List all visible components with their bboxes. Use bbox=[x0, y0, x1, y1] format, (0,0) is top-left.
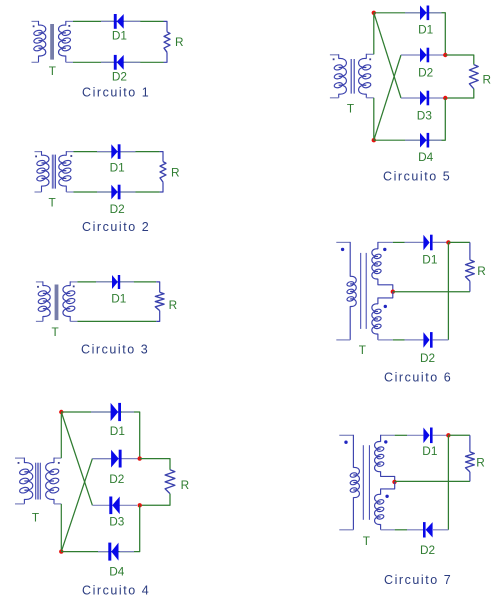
label T (circuit 1) bbox=[49, 64, 56, 78]
svg-text:D2: D2 bbox=[420, 351, 435, 365]
transformer T (circuit 1) secondary winding bbox=[59, 21, 73, 62]
svg-text:D1: D1 bbox=[110, 161, 125, 175]
wire c6 resistor bottom lead bbox=[469, 281, 471, 292]
label Circuito 5 bbox=[383, 170, 451, 184]
wire c4 D1 row bbox=[61, 411, 134, 413]
transformer T (circuit 4) secondary polarity dot bbox=[58, 462, 60, 464]
transformer T (circuit 6) core bbox=[361, 253, 367, 329]
transformer T (circuit 4) secondary winding bbox=[46, 458, 62, 504]
wire c4 D3 row bbox=[92, 504, 137, 506]
svg-text:T: T bbox=[49, 64, 56, 78]
transformer T (circuit 7) secondary top winding bbox=[375, 435, 395, 482]
svg-text:D4: D4 bbox=[109, 565, 125, 579]
wire c2 right bottom corner bbox=[160, 182, 163, 192]
transformer T (circuit 4) primary winding bbox=[15, 458, 33, 504]
wire c6 resistor bottom to center tap bbox=[393, 291, 470, 293]
wire c7 bottom (secondary bottom to D2) bbox=[395, 529, 423, 531]
node c4 top junction bbox=[59, 410, 63, 414]
label D2 (circuit 2) bbox=[110, 202, 125, 216]
label R (circuit 2) bbox=[171, 165, 180, 179]
resistor R (circuit 1) bbox=[164, 32, 170, 53]
label R (circuit 5) bbox=[483, 72, 492, 86]
label T (circuit 7) bbox=[363, 534, 370, 548]
node c6 D1 output junction bbox=[446, 240, 450, 244]
label D2 (circuit 4) bbox=[109, 472, 124, 486]
diode D1 (circuit 1) bbox=[114, 14, 124, 29]
transformer T (circuit 6) secondary bottom polarity dot bbox=[384, 305, 387, 308]
transformer T (circuit 5) primary winding bbox=[330, 54, 347, 98]
wire c6 vertical D1-node to D2 bbox=[447, 242, 449, 340]
label Circuito 6 bbox=[384, 370, 452, 384]
svg-text:R: R bbox=[175, 35, 184, 49]
diode D1 (circuit 2) bbox=[111, 144, 120, 159]
wire c5 D2 row bbox=[401, 54, 445, 56]
transformer T (circuit 7) secondary bottom winding bbox=[375, 482, 395, 530]
node c4 D2 output junction bbox=[138, 456, 142, 460]
svg-text:Circuito 3: Circuito 3 bbox=[81, 343, 149, 357]
wire c5 D2-node to resistor bbox=[445, 55, 474, 65]
resistor R (circuit 2) bbox=[160, 162, 166, 183]
wire c7 vertical D1-node to D2 bbox=[447, 435, 449, 530]
wire c7 D1 to node bbox=[432, 434, 448, 436]
transformer T (circuit 7) secondary top polarity dot bbox=[384, 440, 387, 443]
wire c5 D4 row bbox=[374, 139, 442, 141]
svg-text:D2: D2 bbox=[110, 202, 125, 216]
node c5 D3 output junction bbox=[443, 96, 447, 100]
svg-text:Circuito 1: Circuito 1 bbox=[82, 85, 150, 99]
label Circuito 3 bbox=[81, 343, 149, 357]
wire c6 D1 to node bbox=[432, 241, 448, 243]
node c7 D1 output junction bbox=[446, 433, 450, 437]
svg-text:D1: D1 bbox=[422, 252, 437, 266]
svg-text:D1: D1 bbox=[110, 424, 125, 438]
svg-text:R: R bbox=[477, 264, 486, 278]
wire c4 resistor to D3-node bbox=[140, 494, 170, 506]
wire c7 node to resistor top bbox=[448, 434, 470, 436]
node c7 center tap junction bbox=[392, 480, 396, 484]
transformer T (circuit 5) primary polarity dot bbox=[333, 58, 335, 60]
transformer T (circuit 6) secondary bottom winding bbox=[372, 292, 393, 340]
label R (circuit 6) bbox=[477, 264, 486, 278]
wire c5 diagonal top-node to D3 row bbox=[374, 13, 401, 98]
diode D1 (circuit 5) bbox=[420, 6, 429, 21]
transformer T (circuit 2) primary polarity dot bbox=[35, 156, 37, 158]
svg-text:D1: D1 bbox=[111, 292, 126, 306]
wire c5 right vertical D4-to-D3 bbox=[442, 98, 446, 140]
svg-text:T: T bbox=[52, 325, 59, 339]
svg-text:D1: D1 bbox=[422, 444, 437, 458]
label Circuito 4 bbox=[82, 583, 150, 597]
resistor R (circuit 7) bbox=[466, 452, 475, 472]
wire c5 resistor to D3-node bbox=[445, 89, 474, 98]
svg-text:D2: D2 bbox=[112, 70, 127, 84]
diode D2 (circuit 1) bbox=[114, 55, 124, 70]
wire c5 right vertical D1-to-D2 bbox=[442, 13, 446, 55]
transformer T (circuit 2) secondary winding bbox=[59, 151, 74, 192]
transformer T (circuit 6) primary winding bbox=[336, 242, 356, 340]
wire c7 top (secondary top to D1) bbox=[395, 434, 424, 436]
wire c1 bottom (resistor to D2 to secondary) bbox=[73, 61, 164, 63]
label D2 (circuit 6) bbox=[420, 351, 435, 365]
transformer T (circuit 5) core bbox=[351, 59, 354, 94]
transformer T (circuit 6) primary polarity dot bbox=[341, 248, 344, 251]
wire c1 right bottom corner bbox=[164, 52, 168, 62]
label D2 (circuit 5) bbox=[418, 66, 433, 80]
label D1 (circuit 5) bbox=[418, 23, 433, 37]
transformer T (circuit 1) secondary polarity dot bbox=[68, 25, 70, 27]
svg-text:Circuito 7: Circuito 7 bbox=[384, 573, 452, 587]
label D3 (circuit 5) bbox=[417, 109, 433, 123]
label D1 (circuit 4) bbox=[110, 424, 125, 438]
wire c1 top (secondary top to D1 and to resistor corner) bbox=[73, 20, 164, 22]
label D2 (circuit 7) bbox=[420, 543, 435, 557]
label T (circuit 3) bbox=[52, 325, 59, 339]
wire c6 resistor top lead bbox=[469, 242, 471, 260]
diode D4 (circuit 5) bbox=[420, 133, 429, 148]
wire c4 left vertical bottom (secondary bottom to node) bbox=[60, 504, 62, 552]
diode D2 (circuit 6) bbox=[423, 332, 432, 348]
svg-text:T: T bbox=[32, 511, 39, 525]
transformer T (circuit 3) primary winding bbox=[36, 281, 50, 321]
wire c7 resistor top lead bbox=[469, 435, 471, 452]
transformer T (circuit 3) secondary polarity dot bbox=[73, 286, 75, 288]
transformer T (circuit 4) primary polarity dot bbox=[18, 462, 20, 464]
transformer T (circuit 2) core bbox=[52, 155, 55, 189]
svg-text:R: R bbox=[181, 478, 190, 492]
svg-text:Circuito 4: Circuito 4 bbox=[82, 583, 150, 597]
transformer T (circuit 3) primary polarity dot bbox=[37, 286, 39, 288]
wire c7 resistor bottom lead bbox=[469, 472, 471, 482]
svg-text:D3: D3 bbox=[109, 515, 125, 529]
wire c3 right bottom corner bbox=[156, 311, 160, 322]
node c6 center tap junction bbox=[391, 290, 395, 294]
diode D2 (circuit 4) bbox=[111, 450, 122, 468]
svg-text:D4: D4 bbox=[418, 150, 434, 164]
wire c7 D2 to vertical bbox=[433, 529, 448, 531]
diode D1 (circuit 6) bbox=[423, 235, 432, 251]
wire c5 D1 row bbox=[374, 12, 442, 14]
label D4 (circuit 5) bbox=[418, 150, 434, 164]
node c5 bottom junction bbox=[372, 138, 376, 142]
label T (circuit 4) bbox=[32, 511, 39, 525]
wire c7 resistor bottom to center tap bbox=[395, 480, 470, 482]
svg-text:T: T bbox=[363, 534, 370, 548]
svg-text:D1: D1 bbox=[418, 23, 433, 37]
label Circuito 2 bbox=[82, 220, 150, 234]
label D1 (circuit 2) bbox=[110, 161, 125, 175]
diode D3 (circuit 4) bbox=[109, 497, 119, 515]
wire c3 right top corner bbox=[156, 282, 160, 292]
resistor R (circuit 6) bbox=[466, 260, 475, 281]
svg-text:D2: D2 bbox=[109, 472, 124, 486]
svg-text:Circuito 2: Circuito 2 bbox=[82, 220, 150, 234]
svg-text:D3: D3 bbox=[417, 109, 433, 123]
svg-text:R: R bbox=[476, 456, 485, 470]
transformer T (circuit 3) secondary winding bbox=[63, 281, 77, 321]
transformer T (circuit 6) secondary top winding bbox=[372, 242, 393, 292]
diode D3 (circuit 5) bbox=[420, 91, 429, 106]
wire c5 left vertical bottom bbox=[373, 98, 375, 140]
diode D4 (circuit 4) bbox=[108, 543, 118, 561]
wire c2 right top corner bbox=[160, 152, 163, 162]
wire c1 right top corner bbox=[164, 21, 168, 31]
label R (circuit 3) bbox=[169, 298, 178, 312]
label R (circuit 4) bbox=[181, 478, 190, 492]
transformer T (circuit 5) secondary polarity dot bbox=[369, 58, 371, 60]
transformer T (circuit 2) primary winding bbox=[35, 151, 50, 192]
node c5 D2 output junction bbox=[443, 53, 447, 57]
transformer T (circuit 3) core bbox=[55, 285, 59, 321]
node c4 bottom junction bbox=[59, 549, 63, 553]
label D1 (circuit 7) bbox=[422, 444, 437, 458]
label D1 (circuit 6) bbox=[422, 252, 437, 266]
transformer T (circuit 1) primary polarity dot bbox=[33, 25, 35, 27]
wire c4 right vertical D1-to-D2 bbox=[134, 412, 140, 459]
wire c5 D3 row bbox=[401, 97, 445, 99]
label D3 (circuit 4) bbox=[109, 515, 125, 529]
label T (circuit 5) bbox=[347, 101, 354, 115]
diode D2 (circuit 7) bbox=[423, 522, 433, 537]
transformer T (circuit 2) secondary polarity dot bbox=[70, 155, 72, 157]
transformer T (circuit 4) core bbox=[36, 463, 41, 500]
label D4 (circuit 4) bbox=[109, 565, 125, 579]
node c5 top junction bbox=[372, 11, 376, 15]
svg-text:D2: D2 bbox=[418, 66, 433, 80]
wire c5 left vertical top bbox=[373, 13, 375, 55]
transformer T (circuit 1) core bbox=[50, 24, 54, 60]
svg-text:D1: D1 bbox=[112, 29, 127, 43]
label R (circuit 7) bbox=[476, 456, 485, 470]
transformer T (circuit 7) core bbox=[363, 445, 369, 520]
svg-text:R: R bbox=[169, 298, 178, 312]
svg-text:Circuito 5: Circuito 5 bbox=[383, 170, 451, 184]
label D2 (circuit 1) bbox=[112, 70, 127, 84]
diode D1 (circuit 4) bbox=[111, 403, 121, 421]
transformer T (circuit 7) primary polarity dot bbox=[344, 441, 347, 444]
wire c6 node to resistor top bbox=[448, 241, 470, 243]
wire c4 diagonal top-node to D3 row bbox=[61, 412, 92, 505]
wire c2 top (secondary top to D1 and to resistor corner) bbox=[74, 151, 160, 153]
wire c5 diagonal bottom-node to D2 row bbox=[374, 55, 401, 140]
diode D2 (circuit 5) bbox=[420, 48, 429, 63]
wire c2 bottom (resistor to D2 to secondary) bbox=[74, 191, 160, 193]
wire c6 top (secondary top to D1) bbox=[393, 241, 424, 243]
svg-text:R: R bbox=[483, 72, 492, 86]
diode D1 (circuit 7) bbox=[423, 428, 432, 444]
wire c4 diagonal bottom-node to D2 row bbox=[61, 459, 92, 552]
diode D1 (circuit 3) bbox=[112, 275, 120, 289]
wire c4 D4 row bbox=[61, 551, 134, 553]
wire c4 D2 row bbox=[92, 458, 139, 460]
svg-text:R: R bbox=[171, 165, 180, 179]
svg-text:D2: D2 bbox=[420, 543, 435, 557]
wire c3 top (secondary top to D1 and to resistor corner) bbox=[77, 281, 156, 283]
wire c4 D2-node to resistor bbox=[140, 459, 170, 470]
label T (circuit 6) bbox=[359, 343, 366, 357]
resistor R (circuit 3) bbox=[155, 292, 164, 310]
resistor R (circuit 4) bbox=[165, 470, 175, 494]
transformer T (circuit 5) secondary winding bbox=[359, 54, 374, 98]
label Circuito 7 bbox=[384, 573, 452, 587]
wire c6 D2 to vertical bbox=[432, 339, 448, 341]
label T (circuit 2) bbox=[49, 195, 56, 209]
wire c6 bottom (secondary bottom to D2) bbox=[393, 339, 424, 341]
label R (circuit 1) bbox=[175, 35, 184, 49]
label Circuito 1 bbox=[82, 85, 150, 99]
transformer T (circuit 1) primary winding bbox=[32, 21, 46, 62]
transformer T (circuit 7) primary winding bbox=[339, 435, 359, 530]
svg-text:T: T bbox=[347, 101, 354, 115]
transformer T (circuit 6) secondary top polarity dot bbox=[383, 248, 386, 251]
svg-text:Circuito 6: Circuito 6 bbox=[384, 370, 452, 384]
node c4 D3 output junction bbox=[138, 503, 142, 507]
label D1 (circuit 3) bbox=[111, 292, 126, 306]
svg-text:T: T bbox=[49, 195, 56, 209]
wire c3 bottom (resistor to secondary) bbox=[77, 320, 156, 322]
diode D2 (circuit 2) bbox=[111, 185, 120, 200]
transformer T (circuit 7) secondary bottom polarity dot bbox=[385, 495, 388, 498]
svg-text:T: T bbox=[359, 343, 366, 357]
wire c4 left vertical top (secondary top to node) bbox=[60, 412, 62, 458]
wire c4 right vertical D3-to-D4 bbox=[134, 505, 140, 551]
label D1 (circuit 1) bbox=[112, 29, 127, 43]
resistor R (circuit 5) bbox=[469, 65, 478, 89]
